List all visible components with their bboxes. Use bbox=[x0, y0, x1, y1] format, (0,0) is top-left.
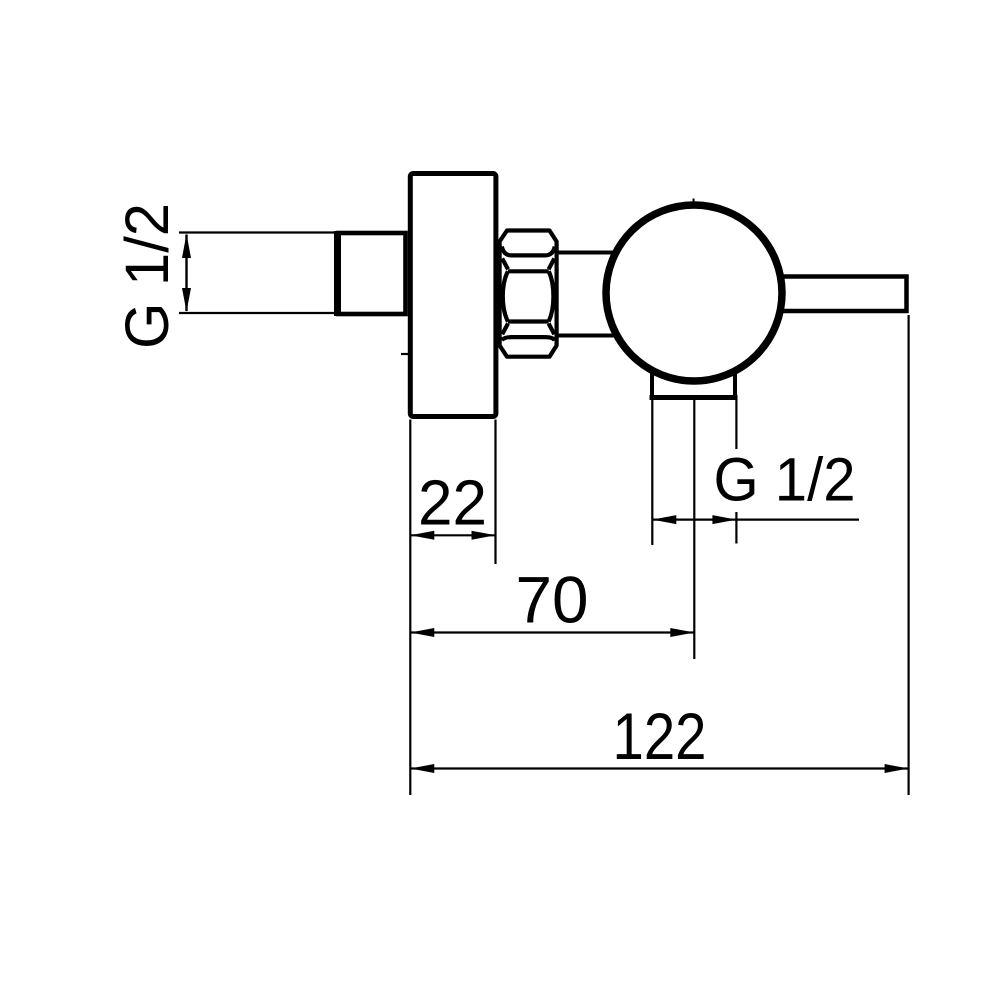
G 1/2 right extension lower bbox=[735, 512, 737, 544]
outlet below body bbox=[650, 365, 738, 398]
nut lower band line bbox=[508, 319, 549, 323]
pipe fitting thick left edge bbox=[334, 231, 341, 316]
wall plate bbox=[410, 174, 496, 417]
inlet pipe bottom line bbox=[179, 312, 338, 314]
nut lower facet diagonal left bbox=[502, 324, 508, 335]
dimension G 1/2 bottom bbox=[652, 518, 859, 520]
center extension line bbox=[693, 400, 695, 659]
G 1/2 left extension bbox=[651, 400, 653, 546]
dimension 70 bbox=[410, 631, 694, 633]
nut middle barrel left arc bbox=[503, 271, 508, 321]
nut lower facet diagonal right bbox=[549, 324, 555, 335]
arrow down bbox=[182, 288, 191, 312]
dimension 22 bbox=[410, 534, 495, 536]
nut upper facet diagonal right bbox=[549, 259, 555, 270]
extension line left (from plate) bbox=[409, 420, 411, 796]
extension line 122 right bbox=[907, 315, 909, 795]
svg-text:122: 122 bbox=[613, 699, 707, 773]
arrow up bbox=[182, 234, 191, 258]
svg-text:G 1/2: G 1/2 bbox=[113, 203, 181, 349]
connector to body bbox=[556, 251, 625, 255]
nut bottom face upper edge bbox=[502, 337, 555, 340]
G 1/2 vertical dimension line bbox=[185, 235, 187, 312]
hex nut bbox=[500, 231, 557, 357]
nut outer octagon bbox=[500, 231, 557, 357]
nut middle barrel right arc bbox=[549, 271, 554, 321]
extension line 22 right bbox=[494, 420, 496, 565]
top center tick bbox=[693, 199, 695, 205]
tick mark left of plate bbox=[401, 353, 408, 355]
svg-text:22: 22 bbox=[418, 467, 487, 539]
nut top face lower edge bbox=[502, 247, 555, 256]
nut upper band line bbox=[508, 269, 549, 273]
mixer body circle bbox=[606, 205, 782, 381]
G 1/2 right extension upper bbox=[735, 400, 737, 450]
dimension 122 bbox=[410, 767, 908, 769]
handle bbox=[780, 277, 907, 312]
pipe fitting bbox=[339, 233, 406, 314]
nut upper facet diagonal left bbox=[502, 259, 508, 270]
inlet pipe top line bbox=[179, 231, 338, 233]
svg-text:70: 70 bbox=[516, 563, 589, 637]
svg-text:G 1/2: G 1/2 bbox=[714, 446, 856, 514]
